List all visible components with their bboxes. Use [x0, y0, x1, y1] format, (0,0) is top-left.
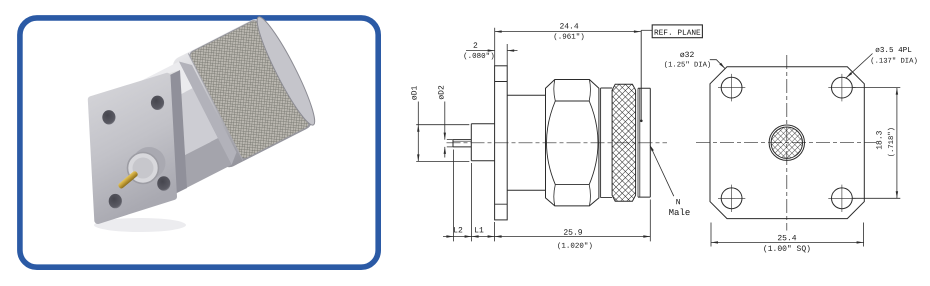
svg-text:(.961″): (.961″) — [553, 34, 585, 42]
svg-text:REF. PLANE: REF. PLANE — [654, 30, 701, 38]
svg-text:L1: L1 — [474, 226, 484, 235]
svg-text:Male: Male — [669, 208, 691, 218]
svg-text:(1.00″ SQ): (1.00″ SQ) — [763, 245, 811, 254]
svg-text:(1.020″): (1.020″) — [557, 243, 593, 251]
svg-text:24.4: 24.4 — [559, 22, 578, 31]
svg-text:øD1: øD1 — [411, 86, 420, 101]
svg-text:2: 2 — [473, 42, 478, 51]
svg-text:25.9: 25.9 — [563, 229, 582, 238]
svg-text:L2: L2 — [453, 226, 463, 235]
svg-text:øD2: øD2 — [438, 85, 447, 100]
svg-text:25.4: 25.4 — [777, 234, 796, 243]
svg-text:(.137″ DIA): (.137″ DIA) — [870, 58, 917, 66]
svg-text:(.080″): (.080″) — [463, 53, 495, 61]
svg-text:ø32: ø32 — [680, 51, 695, 60]
svg-text:18.3: 18.3 — [875, 130, 884, 149]
svg-text:(1.25″ DIA): (1.25″ DIA) — [664, 62, 711, 70]
svg-text:N: N — [676, 198, 681, 207]
svg-text:(.718″): (.718″) — [888, 127, 896, 157]
svg-text:ø3.5 4PL: ø3.5 4PL — [875, 47, 912, 55]
